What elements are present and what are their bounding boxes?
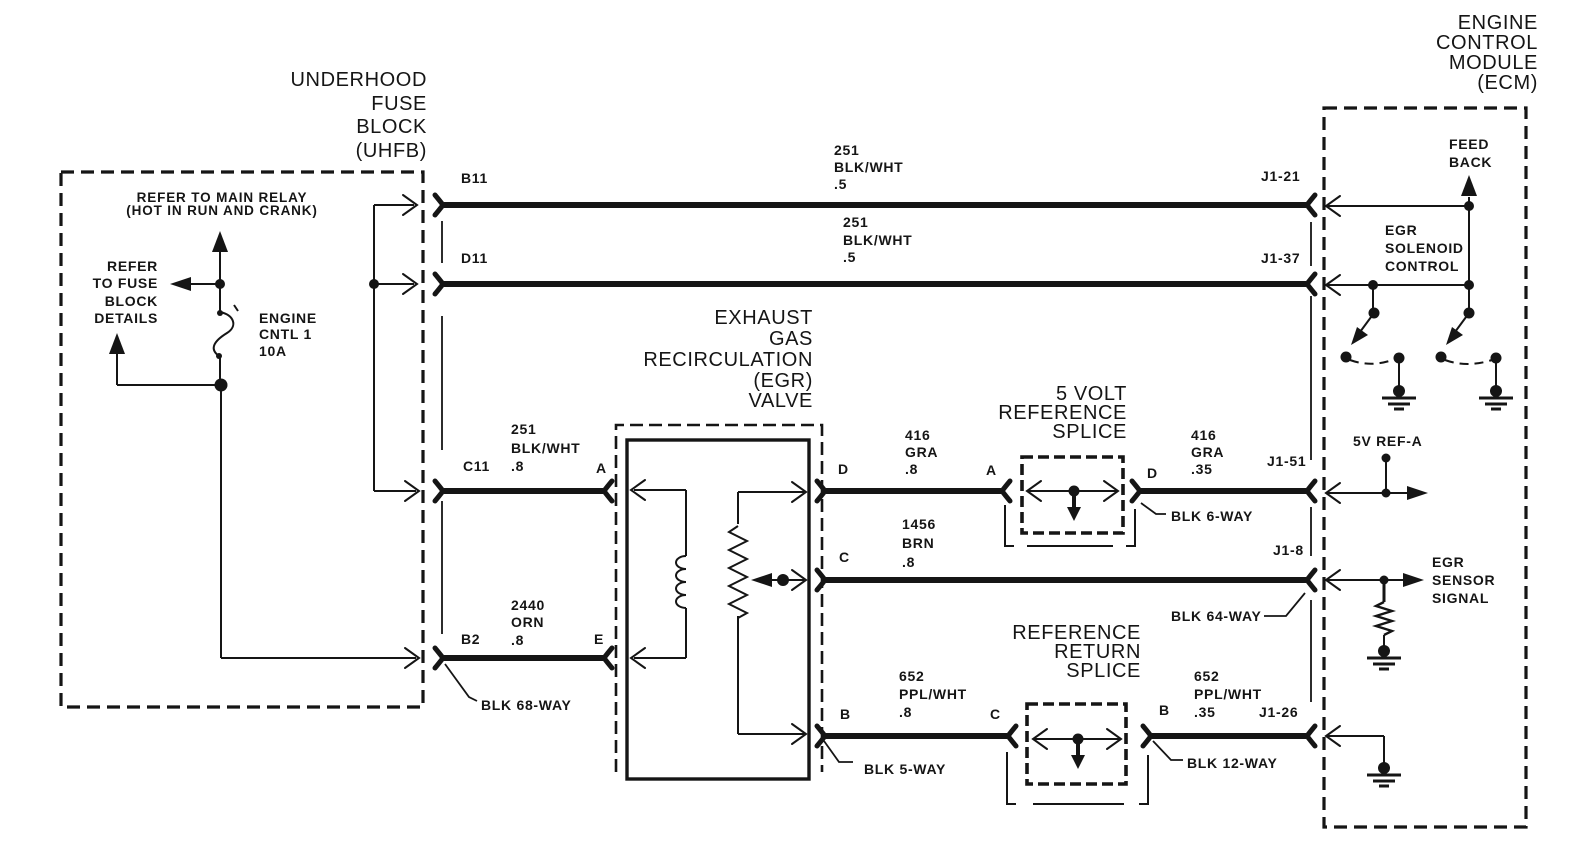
- svg-text:251: 251: [511, 421, 536, 437]
- svg-text:(EGR): (EGR): [753, 370, 813, 392]
- svg-text:EGR: EGR: [1385, 222, 1417, 238]
- svg-text:J1-51: J1-51: [1267, 453, 1306, 469]
- svg-text:PPL/WHT: PPL/WHT: [899, 686, 967, 702]
- svg-text:652: 652: [899, 668, 924, 684]
- svg-text:.8: .8: [902, 554, 915, 570]
- svg-text:.8: .8: [899, 704, 912, 720]
- svg-text:416: 416: [905, 427, 930, 443]
- svg-text:EXHAUST: EXHAUST: [714, 307, 813, 329]
- svg-text:CONTROL: CONTROL: [1385, 258, 1459, 274]
- svg-text:CONTROL: CONTROL: [1436, 32, 1538, 54]
- svg-text:REFER: REFER: [107, 258, 158, 274]
- svg-text:.8: .8: [905, 461, 918, 477]
- svg-text:BLK 64-WAY: BLK 64-WAY: [1171, 608, 1262, 624]
- svg-text:A: A: [596, 460, 607, 476]
- svg-text:BLK 6-WAY: BLK 6-WAY: [1171, 508, 1253, 524]
- svg-text:ENGINE: ENGINE: [259, 310, 317, 326]
- svg-text:652: 652: [1194, 668, 1219, 684]
- svg-text:RECIRCULATION: RECIRCULATION: [643, 349, 813, 371]
- svg-text:.35: .35: [1191, 461, 1213, 477]
- svg-text:.35: .35: [1194, 704, 1216, 720]
- svg-text:BLK 68-WAY: BLK 68-WAY: [481, 697, 572, 713]
- svg-text:D: D: [1147, 465, 1158, 481]
- svg-text:2440: 2440: [511, 597, 545, 613]
- svg-text:CNTL 1: CNTL 1: [259, 326, 312, 342]
- svg-text:.8: .8: [511, 458, 524, 474]
- svg-text:FUSE: FUSE: [371, 93, 427, 115]
- svg-text:J1-37: J1-37: [1261, 250, 1300, 266]
- svg-text:BLK/WHT: BLK/WHT: [511, 440, 580, 456]
- svg-text:UNDERHOOD: UNDERHOOD: [290, 69, 427, 91]
- svg-text:DETAILS: DETAILS: [94, 310, 158, 326]
- svg-text:251: 251: [843, 214, 868, 230]
- svg-text:SPLICE: SPLICE: [1066, 660, 1141, 682]
- svg-text:10A: 10A: [259, 343, 287, 359]
- svg-text:B11: B11: [461, 170, 488, 186]
- svg-text:B: B: [840, 706, 851, 722]
- svg-text:D11: D11: [461, 250, 488, 266]
- svg-text:ORN: ORN: [511, 614, 544, 630]
- svg-text:BLOCK: BLOCK: [105, 293, 158, 309]
- svg-text:BRN: BRN: [902, 535, 934, 551]
- svg-text:(HOT IN RUN AND CRANK): (HOT IN RUN AND CRANK): [126, 203, 317, 218]
- svg-text:SPLICE: SPLICE: [1052, 421, 1127, 443]
- svg-text:TO FUSE: TO FUSE: [93, 275, 158, 291]
- svg-text:J1-8: J1-8: [1273, 542, 1304, 558]
- svg-text:(UHFB): (UHFB): [356, 140, 427, 162]
- svg-text:.5: .5: [834, 176, 847, 192]
- svg-text:SENSOR: SENSOR: [1432, 572, 1495, 588]
- svg-text:E: E: [594, 631, 604, 647]
- svg-text:BLK/WHT: BLK/WHT: [843, 232, 912, 248]
- svg-text:MODULE: MODULE: [1449, 52, 1538, 74]
- svg-text:1456: 1456: [902, 516, 936, 532]
- svg-text:.8: .8: [511, 632, 524, 648]
- svg-text:BLK/WHT: BLK/WHT: [834, 159, 903, 175]
- svg-text:B2: B2: [461, 631, 480, 647]
- svg-text:251: 251: [834, 142, 859, 158]
- svg-text:FEED: FEED: [1449, 136, 1489, 152]
- svg-text:C: C: [990, 706, 1001, 722]
- svg-text:.5: .5: [843, 249, 856, 265]
- svg-text:EGR: EGR: [1432, 554, 1464, 570]
- svg-text:J1-21: J1-21: [1261, 168, 1300, 184]
- svg-text:C11: C11: [463, 458, 490, 474]
- svg-text:GRA: GRA: [905, 444, 938, 460]
- svg-text:GRA: GRA: [1191, 444, 1224, 460]
- svg-text:BLK 5-WAY: BLK 5-WAY: [864, 761, 946, 777]
- svg-text:PPL/WHT: PPL/WHT: [1194, 686, 1262, 702]
- svg-text:D: D: [838, 461, 849, 477]
- svg-text:416: 416: [1191, 427, 1216, 443]
- svg-text:SIGNAL: SIGNAL: [1432, 590, 1489, 606]
- svg-text:GAS: GAS: [769, 328, 813, 350]
- svg-text:C: C: [839, 549, 850, 565]
- svg-text:SOLENOID: SOLENOID: [1385, 240, 1464, 256]
- svg-text:(ECM): (ECM): [1477, 72, 1538, 94]
- svg-text:B: B: [1159, 702, 1170, 718]
- svg-text:5V REF-A: 5V REF-A: [1353, 433, 1422, 449]
- svg-text:BACK: BACK: [1449, 154, 1492, 170]
- svg-text:VALVE: VALVE: [748, 390, 813, 412]
- svg-text:BLOCK: BLOCK: [356, 116, 427, 138]
- svg-text:BLK 12-WAY: BLK 12-WAY: [1187, 755, 1278, 771]
- svg-text:ENGINE: ENGINE: [1458, 12, 1538, 34]
- svg-text:J1-26: J1-26: [1259, 704, 1298, 720]
- svg-text:A: A: [986, 462, 997, 478]
